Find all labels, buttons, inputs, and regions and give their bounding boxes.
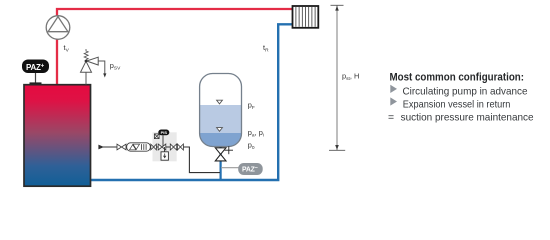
- level marker (fill level pF): [217, 100, 223, 104]
- safety valve SV: [81, 49, 105, 85]
- pump P (circulating pump): [46, 16, 70, 40]
- svg-text:suction pressure maintenance: suction pressure maintenance: [401, 113, 534, 124]
- bullet 1: [390, 85, 397, 93]
- svg-text:pa, pi: pa, pi: [248, 128, 264, 138]
- PAZ+ tag: [22, 60, 49, 74]
- sensor stem for PAZ+: [35, 73, 37, 85]
- controller tag PIS: [158, 130, 169, 136]
- electrical box: [154, 134, 159, 139]
- level marker (initial level): [217, 128, 223, 132]
- svg-text:pF: pF: [248, 101, 255, 111]
- arrow: SV discharge: [103, 73, 106, 77]
- system separator BA: [127, 143, 151, 151]
- wire: make-up water line: [103, 147, 220, 173]
- PAZ- tag: [238, 163, 263, 175]
- svg-text:Circulating pump in advance: Circulating pump in advance: [403, 87, 528, 98]
- dimension line pst,H: [329, 5, 345, 150]
- grey control block background: [153, 132, 177, 161]
- svg-text:PIS: PIS: [161, 130, 168, 135]
- boiler / heat generator: [24, 85, 91, 187]
- valve V1 (make-up shut-off): [117, 144, 126, 150]
- svg-text:=: =: [388, 113, 394, 124]
- radiator (heat consumer): [293, 6, 319, 28]
- svg-text:tV: tV: [64, 43, 70, 53]
- check valve V4: [177, 144, 183, 150]
- svg-text:pst, H: pst, H: [342, 72, 359, 82]
- svg-text:p0: p0: [248, 141, 255, 151]
- expansion vessel MAG: [199, 74, 242, 148]
- svg-text:pSV: pSV: [110, 61, 121, 71]
- wire: PAZ- connector: [221, 167, 240, 169]
- make-up supply arrow: [98, 145, 104, 150]
- valve V2: [151, 144, 157, 150]
- solenoid make-up valve: [162, 135, 164, 146]
- svg-text:Expansion vessel in return: Expansion vessel in return: [403, 100, 511, 111]
- wire: red supply pipe (boiler top -> pump -> top run -> radiator): [57, 9, 293, 85]
- bullet 2: [390, 97, 397, 105]
- water meter box below: [164, 147, 166, 152]
- valve V3: [170, 144, 176, 150]
- svg-text:tR: tR: [263, 43, 269, 53]
- valve under vessel (secured cap valve): [215, 146, 233, 161]
- wire: blue return pipe (radiator -> right riser -> bottom run -> boiler): [91, 24, 293, 180]
- svg-text:Most common configuration:: Most common configuration:: [390, 71, 525, 83]
- wire: blue branch to expansion vessel: [220, 145, 222, 180]
